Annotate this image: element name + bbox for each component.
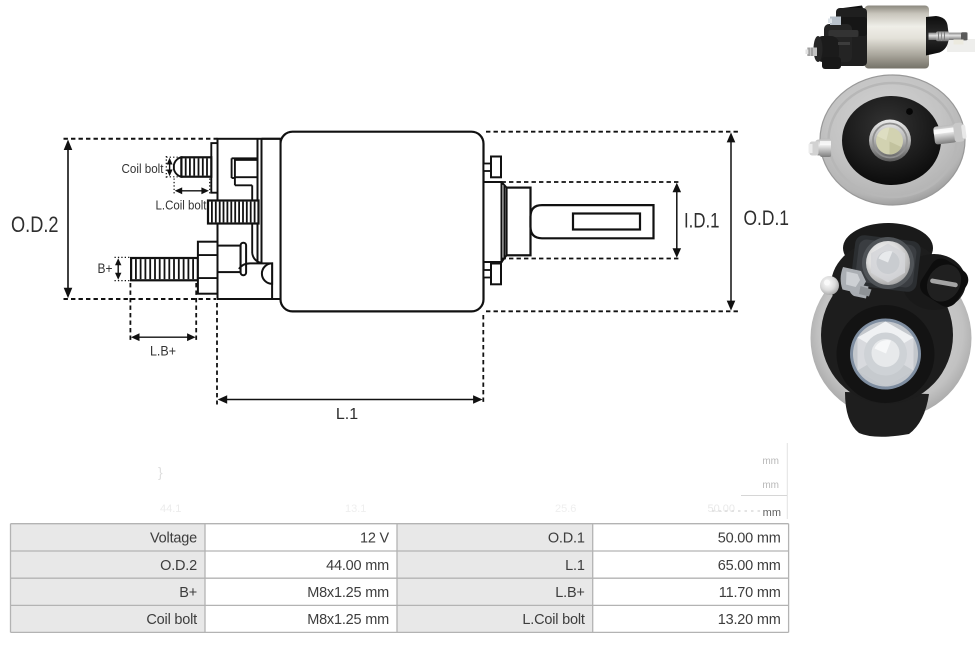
svg-text:}: } — [158, 464, 163, 480]
svg-text:50.00 mm: 50.00 mm — [718, 531, 781, 547]
dimension L.Coil bolt — [173, 179, 175, 195]
svg-text:L.Coil bolt: L.Coil bolt — [156, 197, 207, 212]
dimension O.D.2 extension lines — [64, 138, 218, 140]
plunger shaft — [531, 205, 654, 238]
svg-text:B+: B+ — [179, 585, 197, 601]
svg-text:L.B+: L.B+ — [555, 585, 584, 601]
top end screw tab — [484, 164, 492, 172]
shaft slot — [573, 214, 640, 230]
solenoid body cylinder — [281, 132, 484, 312]
contact pill — [241, 243, 247, 276]
svg-text:L.1: L.1 — [336, 406, 358, 423]
svg-text:44.1: 44.1 — [160, 503, 181, 515]
svg-text:I.D.1: I.D.1 — [684, 210, 720, 233]
photo: product side view — [806, 6, 976, 70]
svg-text:L.Coil bolt: L.Coil bolt — [522, 612, 584, 628]
svg-text:Voltage: Voltage — [150, 531, 197, 547]
svg-text:M8x1.25 mm: M8x1.25 mm — [307, 612, 389, 628]
svg-text:25.6: 25.6 — [555, 503, 576, 515]
svg-text:Coil bolt: Coil bolt — [146, 612, 197, 628]
mounting bracket plate — [218, 139, 281, 299]
svg-text:mm: mm — [762, 456, 779, 467]
dimension O.D.2 arrow — [67, 146, 69, 292]
dimension L.B+ — [129, 283, 131, 343]
svg-text:44.00 mm: 44.00 mm — [326, 558, 389, 574]
svg-text:13.20 mm: 13.20 mm — [718, 612, 781, 628]
svg-text:O.D.2: O.D.2 — [160, 558, 197, 574]
dimension I.D.1 — [502, 181, 682, 183]
svg-text:11.70 mm: 11.70 mm — [719, 585, 781, 601]
svg-text:L.B+: L.B+ — [150, 343, 176, 359]
svg-text:O.D.2: O.D.2 — [11, 212, 59, 237]
coil bolt step plate — [211, 143, 217, 193]
svg-text:12 V: 12 V — [360, 531, 390, 547]
coil bolt stud — [174, 157, 182, 176]
svg-text:13.1: 13.1 — [345, 503, 366, 515]
svg-text:65.00 mm: 65.00 mm — [718, 558, 781, 574]
dimension Coil bolt — [166, 156, 180, 158]
internal stepped cutout — [232, 157, 258, 159]
svg-text:O.D.1: O.D.1 — [744, 207, 790, 230]
dimension B+ — [115, 256, 132, 258]
photo: product front disc view — [809, 75, 968, 205]
dimension L.1 — [216, 303, 218, 405]
svg-text:L.1: L.1 — [565, 558, 585, 574]
B+ threaded stud — [131, 258, 198, 280]
bracket edges to body — [262, 138, 281, 140]
svg-text:O.D.1: O.D.1 — [548, 531, 585, 547]
dimension O.D.1 — [486, 131, 740, 133]
svg-text:B+: B+ — [98, 261, 113, 276]
L.Coil bolt threaded section — [208, 201, 259, 224]
svg-text:50.00: 50.00 — [707, 503, 735, 515]
ghost remnants above table — [158, 456, 781, 519]
photo: product rear view — [811, 223, 973, 437]
bottom end screw tab — [484, 270, 492, 278]
svg-text:mm: mm — [763, 507, 781, 519]
svg-text:mm: mm — [762, 480, 779, 491]
svg-text:M8x1.25 mm: M8x1.25 mm — [307, 585, 389, 601]
collar — [507, 188, 531, 256]
lower block — [239, 263, 272, 299]
washer block — [218, 246, 241, 273]
specification table — [11, 524, 789, 633]
B+ hex nut — [198, 242, 218, 294]
front flange — [484, 182, 502, 262]
svg-text:Coil bolt: Coil bolt — [122, 161, 164, 176]
